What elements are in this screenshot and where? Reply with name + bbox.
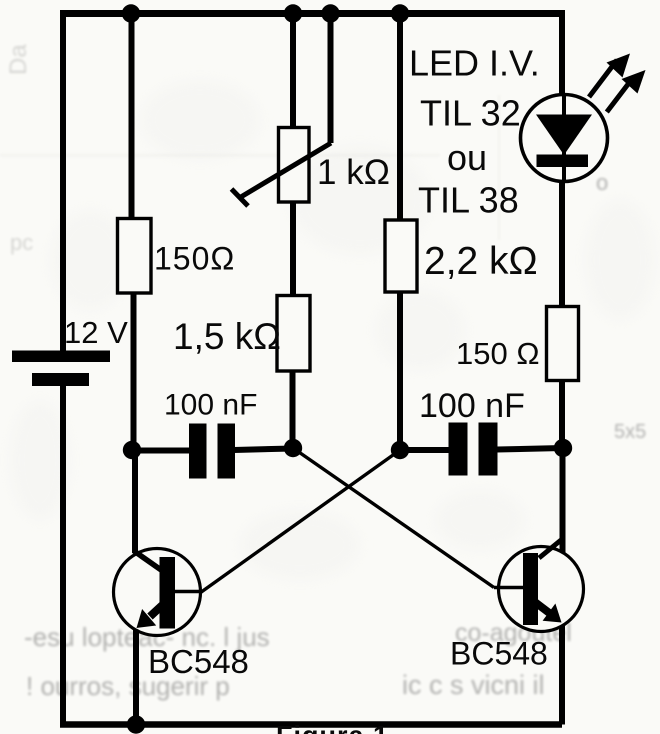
svg-text:TIL 38: TIL 38	[418, 180, 519, 221]
transistor Q2 collector diagonal	[539, 538, 564, 558]
LED D1 cathode bar	[537, 155, 589, 168]
wire: branch x=400 from top rail to R3	[397, 14, 403, 221]
node dots on top rail	[122, 4, 572, 733]
LED D1 emission arrow 1 head	[607, 54, 631, 78]
wire: left vertical (battery branch, lower)	[60, 385, 66, 728]
svg-text:ic c s vicni il: ic c s vicni il	[402, 670, 545, 700]
LED D1 circle	[521, 95, 608, 182]
svg-text:Da: Da	[5, 44, 32, 75]
transistor Q2 circle	[499, 547, 584, 632]
scan mottle (decorative)	[10, 80, 655, 580]
node: top rail / P1 branch	[284, 4, 302, 22]
transistor Q1 emitter arrowhead	[137, 609, 157, 628]
transistor Q1 emitter shaft	[150, 605, 163, 617]
LED D1 emission arrow 2 shaft	[607, 79, 632, 112]
node: C1 left junction	[123, 441, 141, 459]
node: bottom rail / Q1 emitter	[127, 715, 145, 733]
svg-text:ou: ou	[447, 137, 487, 178]
wire: P1 bottom to R2 top	[290, 202, 296, 296]
transistor Q1 collector diagonal	[134, 551, 164, 572]
wire: cross-coupling diagonal node C1-right to Q2 base	[293, 448, 494, 588]
svg-text:150 Ω: 150 Ω	[456, 336, 540, 371]
node: top rail / R3 branch	[391, 4, 409, 22]
wire: cross-coupling diagonal node C2-left to Q1 base	[202, 450, 400, 592]
wire: node C1-left to C1 left plate	[132, 448, 190, 454]
transistor Q2 emitter arrowhead	[543, 604, 562, 623]
transistor Q2 base lead	[494, 586, 524, 589]
wire: bottom rail	[60, 721, 562, 728]
wire: branch x=132 from top rail to R1	[129, 14, 135, 220]
svg-text:Figura 1: Figura 1	[276, 721, 389, 734]
transistor Q1 base lead	[175, 590, 203, 593]
svg-text:BC548: BC548	[450, 636, 548, 672]
svg-text:1,5 kΩ: 1,5 kΩ	[173, 316, 281, 357]
wire: node C2-left to C2 left plate	[400, 447, 449, 453]
capacitor C1 100nF right plate	[218, 424, 236, 479]
resistor R3 2,2k	[385, 220, 417, 292]
svg-text:12 V: 12 V	[64, 315, 128, 350]
resistor R4 150 ohm (right)	[547, 307, 579, 381]
trimmer P1 1k body	[279, 128, 310, 203]
wire: R1 bottom to node C1-left	[131, 293, 137, 451]
node: top rail / P1 wiper branch	[321, 4, 339, 22]
wire: top rail	[60, 10, 562, 17]
transistor Q1 base bar	[160, 557, 176, 629]
LED D1 emission arrow 2 head	[622, 70, 646, 94]
wire: node C1-left down to Q1 collector entry	[132, 451, 138, 553]
trimmer P1 wiper end bar	[232, 189, 249, 206]
svg-text:150Ω: 150Ω	[154, 241, 235, 277]
node: C2 right junction	[554, 439, 572, 457]
svg-text:BC548: BC548	[148, 643, 249, 680]
capacitor C1 100nF left plate	[189, 424, 207, 479]
capacitor C2 100nF right plate	[479, 423, 498, 476]
transistor Q2 emitter shaft	[536, 603, 551, 614]
svg-text:100 nF: 100 nF	[164, 389, 257, 422]
resistor R2 1,5k	[277, 296, 310, 372]
svg-text:o: o	[596, 170, 608, 195]
node: C1 right junction	[284, 439, 302, 457]
wire: node C2-right down to Q2 collector entry	[560, 448, 566, 554]
battery B1 12V	[12, 351, 110, 387]
node: top rail / R1 branch	[122, 4, 140, 22]
wire: R4 bottom to node C2-right	[559, 381, 565, 448]
transistor Q1 circle	[114, 549, 201, 636]
trimmer P1 wiper diagonal	[240, 143, 331, 198]
wire: Q1 emitter exit to bottom rail	[133, 628, 139, 725]
svg-text:5x5: 5x5	[614, 421, 646, 443]
LED D1 anode triangle	[536, 115, 592, 156]
LED D1 emission arrow 1 shaft	[589, 60, 617, 97]
wire: C2 right plate to node C2-right	[497, 448, 563, 450]
svg-text:2,2 kΩ: 2,2 kΩ	[424, 240, 538, 283]
svg-text:1 kΩ: 1 kΩ	[317, 153, 390, 192]
svg-text:TIL 32: TIL 32	[420, 93, 521, 134]
resistor R1 150 ohm (left)	[118, 219, 152, 294]
transistor Q2 base bar	[523, 553, 538, 625]
wire: R3 bottom to node C2-left	[397, 292, 403, 450]
wire: R2 bottom to node C1-right	[290, 371, 296, 448]
capacitor C2 100nF left plate	[449, 423, 468, 476]
wire: branch x=293 from top rail to trimmer P1	[290, 14, 296, 129]
wire: Q2 emitter exit to bottom rail	[559, 626, 565, 725]
svg-text:100 nF: 100 nF	[419, 387, 525, 425]
LED D1 cathode lead through circle	[562, 96, 566, 182]
svg-text:LED I.V.: LED I.V.	[409, 43, 540, 84]
svg-text:pc: pc	[10, 230, 33, 255]
node: C2 left junction	[391, 441, 409, 459]
wire: top rail right corner through LED to R4	[559, 10, 565, 307]
wire: left vertical (battery branch, upper)	[60, 10, 66, 351]
wire: C1 right plate to node C1-right	[234, 449, 293, 451]
wire: branch x=330 from top rail to P1 wiper	[328, 14, 334, 144]
